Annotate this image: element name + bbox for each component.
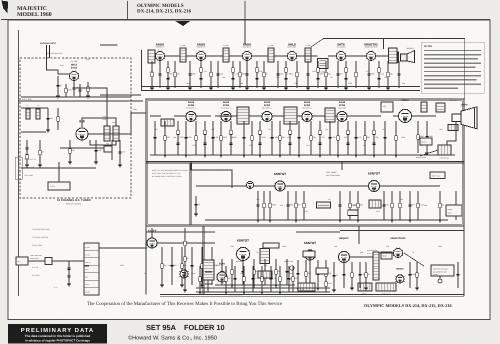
resistor R9 — [174, 72, 176, 76]
terminal divider — [84, 286, 99, 288]
wire — [205, 283, 212, 285]
capacitor C58 — [263, 271, 266, 272]
ground — [230, 285, 234, 287]
wire — [26, 140, 28, 165]
capacitor C69 — [269, 278, 272, 279]
resistor R60 — [305, 272, 307, 276]
transformer/coil T4 ratio det — [305, 48, 311, 62]
wire — [349, 191, 351, 220]
ground — [94, 162, 98, 164]
wire — [395, 121, 397, 155]
wire — [439, 276, 441, 279]
resistor R55 — [184, 241, 186, 245]
video section outer box — [146, 99, 464, 226]
resistor R61 — [325, 272, 327, 276]
wire — [355, 121, 357, 155]
resistor R36 — [337, 136, 339, 140]
wire — [200, 61, 202, 88]
wire — [391, 191, 393, 220]
tube V20 6SN7GT vert osc-output — [236, 239, 249, 261]
resistor R7 — [151, 72, 153, 76]
capacitor C66 — [206, 278, 209, 279]
wire — [254, 185, 276, 187]
wire — [229, 55, 243, 57]
ground — [242, 292, 246, 294]
wire — [350, 256, 374, 258]
transformer/coil T1 4.5MC — [180, 48, 186, 62]
wire B+ distribution — [146, 231, 215, 233]
capacitor C5 — [25, 148, 28, 149]
wire — [343, 262, 345, 288]
wire — [39, 140, 41, 165]
ground — [200, 285, 204, 287]
pilot lamp — [290, 266, 294, 270]
capacitor C29 — [211, 137, 214, 138]
capacitor C39 — [354, 137, 357, 138]
capacitor C44 — [256, 205, 259, 206]
wire — [274, 55, 288, 57]
capacitor C19 — [316, 78, 319, 79]
wire — [277, 61, 279, 88]
ground — [188, 88, 192, 90]
capacitor C45 — [286, 205, 289, 206]
ground — [256, 220, 260, 222]
tube V10 6AU6/6CB6 — [262, 111, 273, 122]
resistor R67 — [243, 277, 245, 281]
ground — [354, 155, 358, 157]
ground — [242, 155, 246, 157]
resistor R1 — [65, 88, 67, 92]
wire — [201, 247, 203, 285]
ground — [46, 130, 50, 132]
wire — [307, 61, 309, 88]
resistor R4 — [57, 117, 59, 121]
resistor R37 — [347, 130, 349, 134]
wire — [231, 259, 233, 285]
ground — [316, 288, 320, 290]
wire — [335, 115, 338, 117]
wire — [340, 230, 464, 232]
transformer/coil ion trap — [436, 103, 445, 112]
wire — [232, 61, 234, 88]
ground — [306, 88, 310, 90]
transformer/coil deflection yoke — [448, 125, 458, 131]
notes text line — [424, 54, 481, 56]
resistor R43 — [269, 203, 271, 207]
wire — [303, 191, 305, 220]
capacitor C54 — [210, 265, 213, 266]
ground — [425, 153, 429, 155]
wire — [439, 191, 441, 220]
capacitor C17 — [284, 78, 287, 79]
wire — [404, 253, 424, 266]
power ground bus — [196, 291, 330, 293]
capacitor C18 — [306, 74, 309, 75]
resistor R38 — [364, 136, 366, 140]
ground — [268, 220, 272, 222]
tube V13 video amp 12AU7 — [398, 109, 411, 123]
wire — [230, 121, 232, 155]
capacitor C62 — [342, 274, 345, 275]
wire — [285, 61, 287, 88]
ground — [338, 220, 342, 222]
left edge connector — [15, 157, 22, 179]
capacitor C47 — [382, 205, 385, 206]
resistor R63 — [365, 273, 367, 277]
capacitor C20 — [336, 74, 339, 75]
wire — [211, 247, 213, 285]
wire — [210, 61, 212, 88]
wire — [191, 162, 232, 188]
capacitor C8 — [158, 74, 161, 75]
resistor R62 — [351, 273, 353, 277]
wire — [398, 61, 400, 88]
resistor R21 — [355, 72, 357, 76]
resistor R11 — [210, 72, 212, 76]
wire — [393, 115, 399, 117]
wire — [399, 191, 401, 220]
header divider continuation wire — [244, 20, 246, 44]
wire — [65, 84, 67, 97]
tube V3 6AU6 — [155, 43, 165, 61]
wire — [21, 131, 46, 133]
ground — [252, 285, 256, 287]
wire antenna to tuner — [47, 58, 70, 74]
resistor R3 — [69, 149, 71, 153]
wire — [212, 121, 214, 155]
wire — [199, 266, 201, 292]
resistor R13 — [239, 72, 241, 76]
ground — [198, 292, 202, 294]
transformer/coil L203 oscillator coil — [104, 126, 110, 141]
wire — [337, 121, 339, 155]
wire — [297, 115, 303, 117]
wire — [215, 115, 237, 117]
tube V6 6AL5 — [287, 43, 297, 61]
wire — [79, 84, 81, 97]
wire — [263, 61, 265, 88]
resistor R42 — [263, 203, 265, 207]
integrator network box — [317, 202, 331, 208]
wire — [296, 231, 340, 233]
terminal divider — [84, 249, 99, 251]
resistor R20 — [345, 68, 347, 72]
wire — [174, 115, 187, 117]
wire — [416, 262, 418, 288]
ground — [180, 285, 184, 287]
ground — [324, 88, 328, 90]
wire — [220, 121, 222, 155]
transformer/coil T3 4.5MC — [268, 48, 274, 62]
wire — [312, 115, 326, 117]
wire — [90, 140, 116, 145]
tube V9 6AU6/6CB6 — [221, 111, 232, 122]
resistor R26 — [195, 136, 197, 140]
wire — [95, 140, 97, 162]
stabilizer coil box — [348, 210, 358, 216]
resistor R12 — [232, 68, 234, 72]
capacitor C16 — [276, 74, 279, 75]
wire — [368, 61, 370, 88]
wire — [141, 50, 143, 91]
resistor R68 — [261, 277, 263, 281]
preliminary data box — [8, 324, 107, 344]
wire — [159, 61, 161, 88]
wire — [259, 121, 261, 155]
capacitor C40 — [372, 143, 375, 144]
wire — [181, 247, 183, 285]
ground — [278, 292, 282, 294]
wire — [207, 266, 209, 292]
volume control box — [318, 59, 329, 69]
wire — [409, 191, 411, 220]
header cell divider — [244, 1, 246, 20]
wire — [347, 121, 349, 155]
tube V24 damper 2 — [396, 274, 405, 283]
transformer/coil T7 2nd video IF — [284, 107, 297, 124]
resistor R49 — [399, 203, 401, 207]
tube V8 6AU6/6CB6 — [186, 111, 197, 122]
capacitor C1 — [56, 85, 59, 86]
notes text line — [424, 83, 481, 85]
capacitor C46 — [338, 205, 341, 206]
header cell divider — [127, 1, 129, 20]
capacitor C34 — [288, 143, 291, 144]
notes text line — [424, 79, 476, 81]
wire — [464, 39, 466, 100]
terminal divider — [84, 264, 99, 266]
wire — [378, 61, 380, 88]
notes text line — [424, 66, 475, 68]
capacitor C32 — [258, 143, 261, 144]
resistor R23 — [387, 72, 389, 76]
resistor R32 — [279, 136, 281, 140]
capacitor C42 — [425, 136, 428, 137]
lower section left boundary wire — [145, 226, 147, 295]
resistor R66 — [225, 277, 227, 281]
transformer/coil T5 audio output — [389, 48, 398, 63]
bottom section rule — [160, 294, 464, 296]
wire — [252, 55, 269, 57]
wire — [21, 107, 48, 109]
wire — [243, 266, 245, 292]
ground — [118, 165, 122, 167]
resistor R70 — [292, 277, 294, 281]
terminal divider — [84, 272, 99, 274]
wire — [195, 196, 197, 214]
wire — [165, 55, 181, 57]
capacitor C65 — [456, 274, 459, 275]
wire — [345, 61, 347, 88]
terminal divider — [84, 257, 99, 259]
notes box — [421, 42, 484, 93]
ground — [67, 284, 71, 286]
wire — [264, 259, 266, 285]
resistor R18 — [317, 68, 319, 72]
capacitor C48 — [408, 205, 411, 206]
ground — [318, 155, 322, 157]
wire — [279, 266, 281, 292]
wire — [68, 261, 70, 284]
tube V22 6BQ6GT horiz output — [338, 251, 349, 263]
wire — [186, 55, 197, 57]
resistor R51 — [439, 203, 441, 207]
wire — [355, 61, 357, 88]
notes text line — [424, 58, 478, 60]
transformer/coil T9 vertical output — [260, 249, 270, 264]
wire — [82, 118, 116, 127]
section divider wire — [202, 226, 204, 295]
wire — [351, 262, 353, 288]
resistor R31 — [259, 130, 261, 134]
transformer/coil T2 4.5MC — [223, 48, 229, 62]
transformer/coil L31 linearity — [376, 283, 396, 291]
ground — [367, 88, 371, 90]
capacitor C22 — [367, 74, 370, 75]
wire audio chain — [157, 242, 215, 244]
capacitor C37 — [328, 137, 331, 138]
transformer/coil T0 4.5MC takeoff — [148, 50, 155, 63]
wire — [119, 140, 121, 165]
wire B+ to output — [324, 38, 465, 40]
ground — [372, 155, 376, 157]
wire — [57, 108, 59, 130]
wire — [285, 185, 369, 187]
wire — [154, 121, 156, 155]
wire — [420, 150, 438, 156]
ground — [219, 155, 223, 157]
wire — [239, 61, 241, 88]
capacitor C60 — [296, 273, 299, 274]
resistor R10 — [200, 68, 202, 72]
wire — [365, 262, 367, 288]
wire — [297, 260, 299, 288]
wire — [252, 266, 254, 292]
resistor R59 — [275, 270, 277, 274]
horizontal hold control box — [446, 205, 462, 216]
HV cage box — [431, 265, 454, 276]
tube V1 6AG5 RF amplifier — [69, 71, 79, 81]
ground — [260, 292, 264, 294]
wire — [58, 162, 60, 182]
wire — [297, 55, 318, 57]
capacitor C14 — [245, 74, 248, 75]
wire — [225, 266, 227, 292]
wire — [380, 185, 441, 187]
transformer/coil L2 antenna coil — [36, 109, 40, 119]
ground — [350, 288, 354, 290]
resistor R53 — [181, 264, 183, 268]
resistor R33 — [289, 130, 291, 134]
wire — [217, 61, 219, 88]
wire — [195, 121, 197, 155]
ground — [68, 162, 72, 164]
wire — [154, 55, 157, 57]
wire — [417, 191, 419, 220]
wire — [341, 162, 343, 170]
tube V11 6AU6/6CB6 — [302, 111, 313, 122]
ground — [203, 155, 207, 157]
wire — [376, 55, 389, 57]
wire mixer output link — [88, 113, 146, 134]
oscillator trimmer — [104, 146, 112, 152]
wire — [19, 100, 22, 102]
wire — [329, 121, 331, 155]
wire — [234, 266, 236, 292]
AC interlock plug — [16, 257, 28, 265]
resistor R25 — [177, 130, 179, 134]
wire — [84, 265, 89, 267]
resistor R29 — [230, 130, 232, 134]
resistor R54 — [201, 264, 203, 268]
ground — [364, 288, 368, 290]
wire — [347, 115, 361, 117]
capacitor C31 — [242, 137, 245, 138]
tube V2 6J6 converter — [76, 119, 88, 140]
wire sound input — [100, 44, 118, 46]
wire — [205, 219, 240, 221]
wire — [412, 115, 437, 117]
capacitor C28 — [203, 143, 206, 144]
wire — [279, 121, 281, 155]
wire — [457, 262, 459, 288]
ground — [209, 88, 213, 90]
capacitor C23 — [377, 78, 380, 79]
wire — [184, 228, 186, 290]
tube V19B triode section — [180, 269, 189, 278]
wire B+ riser — [311, 39, 324, 48]
capacitor C67 — [233, 278, 236, 279]
capacitor C33 — [270, 137, 273, 138]
wire — [257, 191, 259, 220]
wire — [191, 247, 193, 285]
capacitor C57 — [241, 271, 244, 272]
wire — [359, 262, 361, 288]
ground — [262, 88, 266, 90]
tube V21 6SN7GT vert osc — [304, 241, 316, 260]
wire — [177, 121, 179, 155]
capacitor C11 — [199, 78, 202, 79]
header rule — [1, 19, 490, 21]
wire — [317, 260, 319, 288]
wire — [417, 121, 419, 153]
wire — [409, 262, 411, 288]
notes text line — [424, 75, 481, 77]
resistor R28 — [220, 136, 222, 140]
wire — [364, 121, 366, 155]
tube V23 damper — [393, 248, 403, 258]
lower section right boundary wire — [463, 226, 465, 296]
wire — [99, 247, 147, 249]
ground — [344, 88, 348, 90]
wire — [167, 61, 169, 88]
video IF ground bus — [150, 154, 455, 156]
wire — [206, 55, 224, 57]
ground — [297, 155, 301, 157]
wire — [287, 191, 289, 220]
wire — [387, 61, 389, 88]
ground — [390, 220, 394, 222]
wire — [256, 61, 258, 88]
wire — [21, 167, 96, 169]
capacitor C2 — [78, 90, 81, 91]
page corner registration mark — [2, 1, 9, 14]
ground — [332, 290, 336, 292]
wire — [73, 81, 75, 96]
wire — [196, 185, 247, 187]
resistor R8 — [167, 68, 169, 72]
wire — [325, 260, 327, 288]
